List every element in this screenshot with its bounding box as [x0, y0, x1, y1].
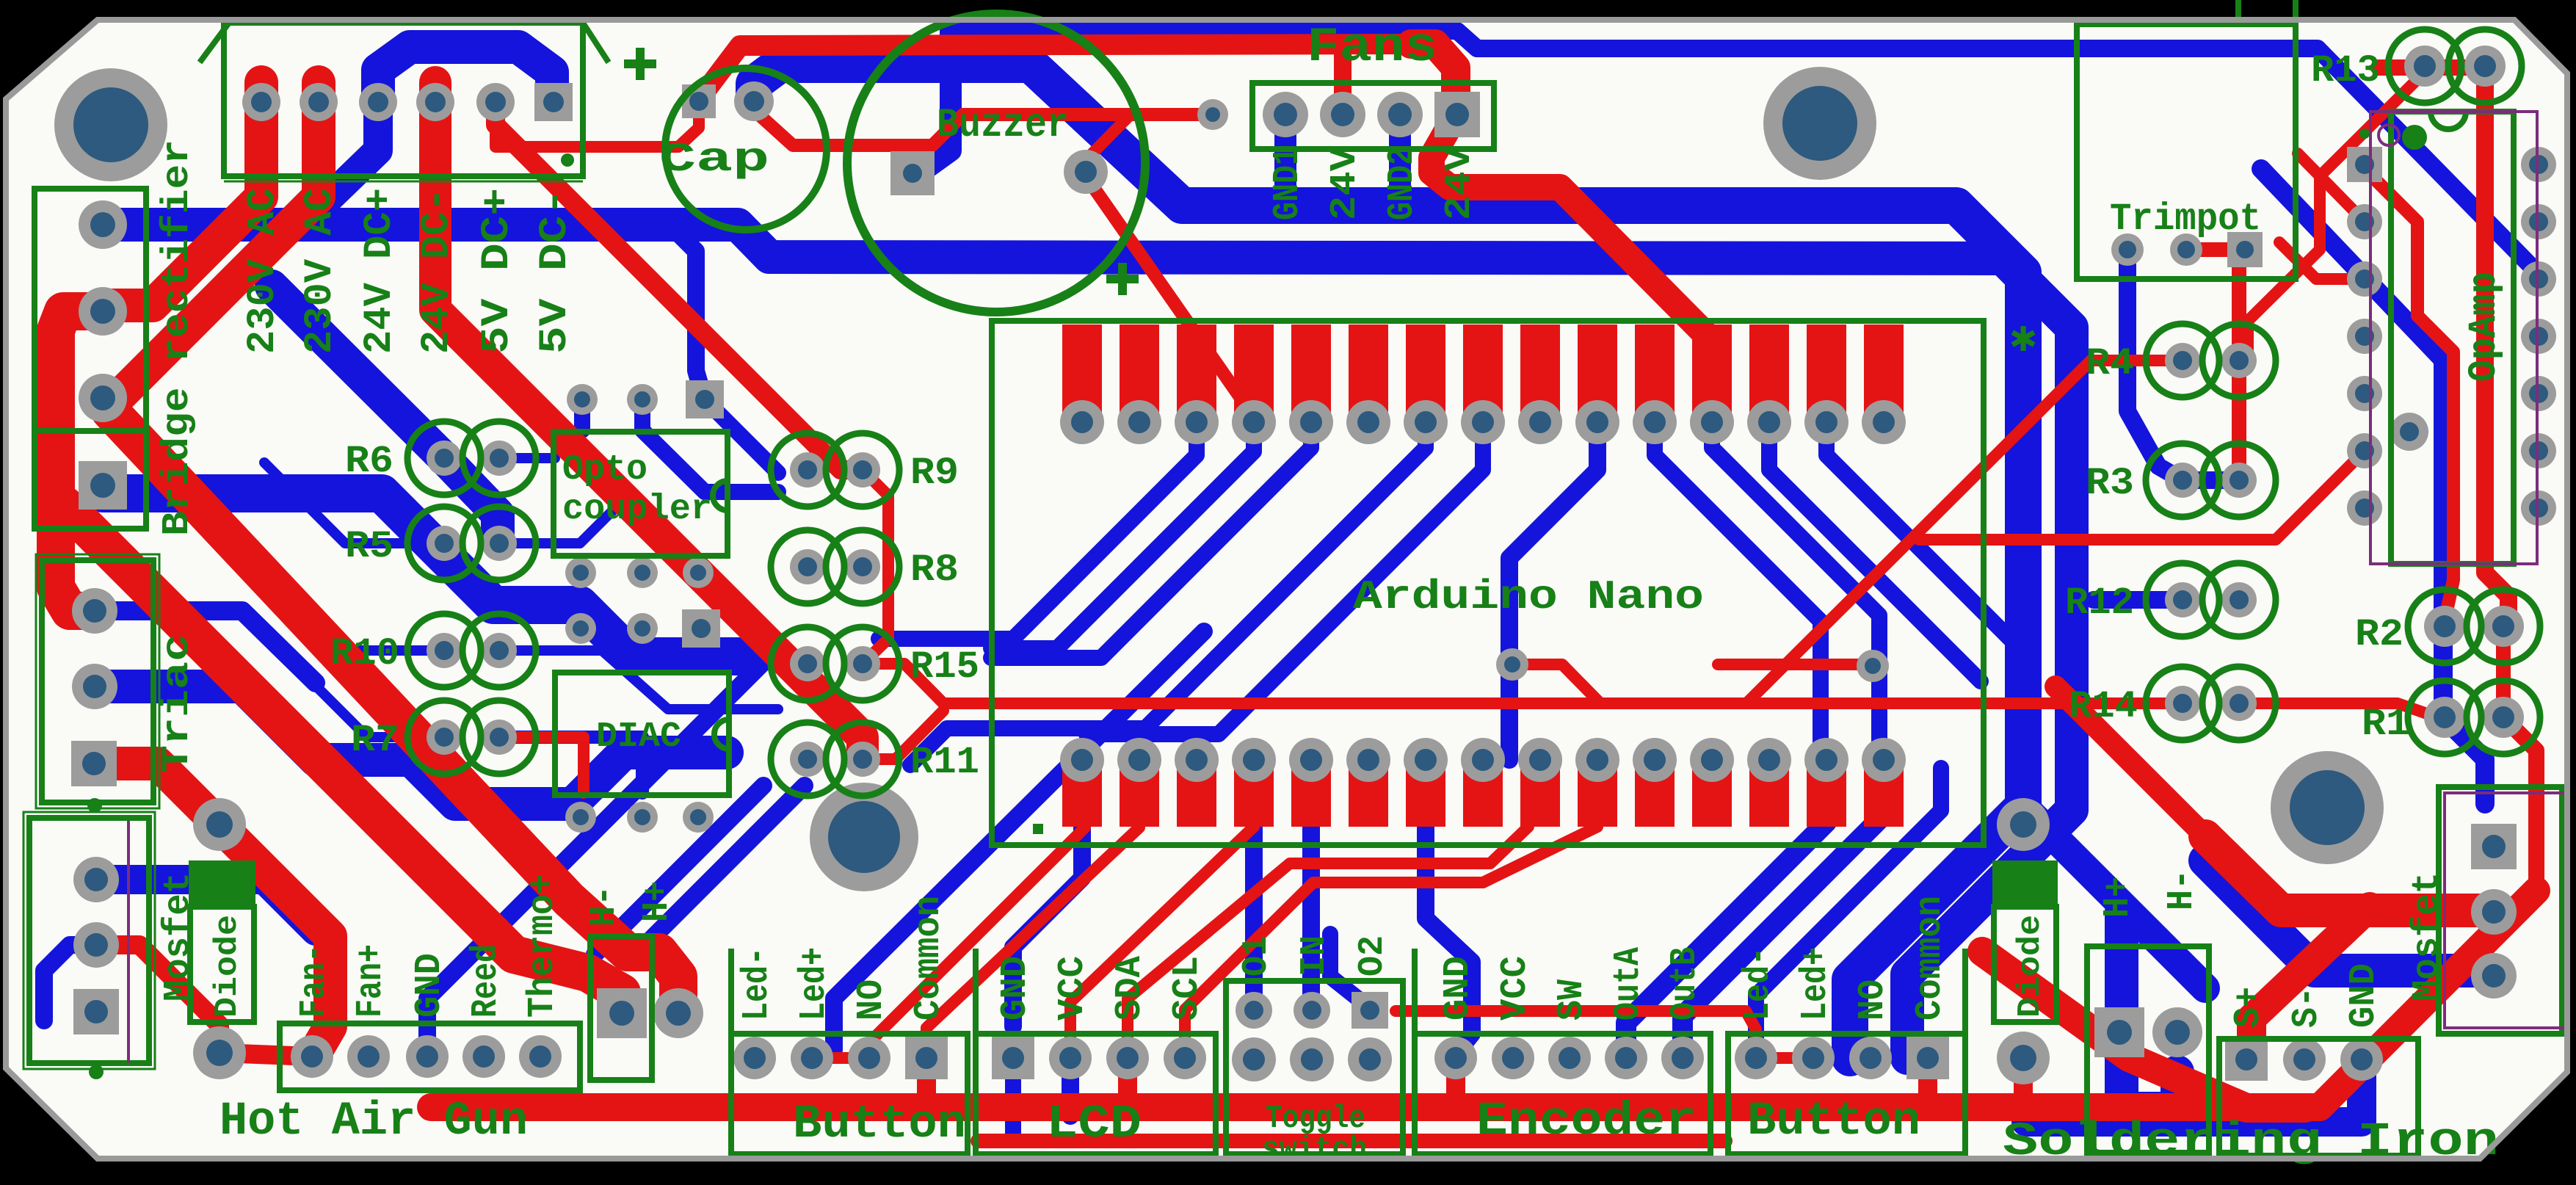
wire red top bus	[699, 44, 1411, 100]
svg-text:OpAmp: OpAmp	[2462, 272, 2507, 382]
pin J1-3 24V DC+	[359, 83, 397, 121]
resistor R7	[407, 700, 481, 774]
pin HAG-4	[462, 1035, 505, 1078]
wire red mosfet1 link	[96, 945, 219, 1053]
via A1	[567, 384, 598, 415]
trimpot RV1 outline	[2077, 24, 2296, 279]
resistor R12 pad 2	[2221, 582, 2257, 617]
wire red fans stub	[1334, 46, 1352, 117]
op-amp U3 outline	[2391, 112, 2514, 564]
wire red trimpot-R3	[2232, 255, 2246, 480]
wire red bus rise	[2305, 891, 2536, 1107]
svg-text:Led-: Led-	[1738, 947, 1779, 1021]
via nano2	[1857, 650, 1889, 682]
wire red enc bundle	[1070, 827, 1254, 1058]
via C2	[627, 613, 658, 644]
pin U1-7	[1404, 400, 1448, 444]
pin ENC-1	[1434, 1037, 1477, 1079]
pin U1-15	[1862, 400, 1906, 444]
fans connector outline	[1252, 83, 1494, 149]
wire blue nano bundle1	[879, 422, 1197, 639]
wire red O2 horizontal	[1396, 1011, 1756, 1051]
pin Fans-3	[1377, 92, 1423, 137]
svg-text:R2: R2	[2355, 613, 2403, 656]
pin U1-5	[1289, 400, 1333, 444]
pin U1-27	[1232, 738, 1276, 782]
svg-text:GND: GND	[2343, 963, 2385, 1028]
svg-text:VCC: VCC	[1052, 956, 1094, 1021]
pin U3-9	[2521, 433, 2556, 468]
svg-text:Opto: Opto	[562, 450, 647, 490]
wire blue band C	[103, 493, 741, 656]
svg-text:230V AC: 230V AC	[298, 188, 343, 354]
wire red S+ feed	[2246, 907, 2370, 1059]
wire red bus stub but2	[1918, 1058, 1937, 1103]
pin SW1-3t	[1352, 992, 1388, 1029]
resistor R6 pad 2	[482, 441, 517, 476]
wire red tr diag	[2056, 686, 2205, 836]
svg-text:Buzzer: Buzzer	[937, 101, 1069, 148]
resistor R12	[2146, 563, 2219, 637]
wire red R13 link	[2379, 59, 2485, 76]
pin BR1-3	[79, 374, 127, 422]
wire red bottom bus	[431, 1093, 2305, 1121]
resistor R8 pad 1	[790, 549, 825, 584]
via D1	[565, 802, 596, 833]
pin HAG-3	[406, 1035, 449, 1078]
resistor R10 pad 1	[427, 633, 462, 668]
connector button2 outline	[1728, 1034, 1965, 1154]
wire blue R12	[2094, 591, 2183, 609]
wire red 24VDCm diag	[435, 82, 863, 759]
wire blue S bus	[2026, 1068, 2362, 1122]
pin U1-19	[1690, 738, 1734, 782]
svg-text:R8: R8	[910, 548, 959, 592]
resistor R15	[771, 627, 844, 700]
svg-text:R11: R11	[910, 741, 979, 784]
pin U1-22	[1518, 738, 1562, 782]
pin RV1-1	[2111, 233, 2144, 266]
pin LCD-4	[1164, 1037, 1206, 1079]
diode D1 cathode	[193, 798, 246, 851]
svg-text:Arduino Nano: Arduino Nano	[1353, 573, 1704, 620]
pin U1-16	[1862, 738, 1906, 782]
pin Fans-2	[1320, 92, 1365, 137]
via D2	[627, 802, 658, 833]
svg-text:Led+: Led+	[794, 947, 835, 1021]
wire red 230V-1 stub	[109, 82, 261, 305]
pin BR1-1	[79, 200, 127, 249]
wire red mid2	[1718, 659, 1879, 670]
resistor R9 pad 2	[845, 452, 880, 488]
svg-text:Diode: Diode	[209, 915, 246, 1018]
wire red long R15-R4	[863, 360, 2183, 703]
pin J1-6 5V DC-	[534, 83, 573, 121]
resistor R9 pad 1	[790, 452, 825, 488]
wire blue band B	[103, 225, 2072, 1058]
wire blue band D	[95, 686, 727, 804]
resistor R6	[407, 421, 481, 495]
svg-text:R14: R14	[2069, 685, 2138, 728]
wire red but1 diag	[926, 827, 1139, 1058]
resistor R11 pad 1	[790, 742, 825, 777]
pin U1-30	[1060, 738, 1104, 782]
via C1	[565, 613, 596, 644]
wire red br diag	[1982, 952, 2305, 1108]
svg-text:Led-: Led-	[736, 947, 778, 1021]
wire blue br diag2	[2205, 860, 2494, 971]
resistor R11 pad 2	[845, 742, 880, 777]
wire red R13-R2	[2485, 73, 2508, 621]
pin U1-10	[1575, 400, 1619, 444]
wire red fans-nano	[1432, 115, 1710, 407]
wire red R14 left	[1718, 697, 2183, 709]
via D3	[683, 802, 714, 833]
pin U3-1	[2347, 147, 2382, 182]
pin J1-2 230V AC	[300, 83, 338, 121]
wire blue mosfet1	[96, 880, 316, 931]
wire red cap-buzzer trace	[754, 110, 1213, 145]
svg-text:Encoder: Encoder	[1476, 1095, 1697, 1148]
wire red buzzer diag	[1086, 176, 1252, 415]
pin SW1-1b	[1232, 1037, 1276, 1081]
wire blue pad3-pad4 pi	[378, 47, 552, 102]
wire blue R10b	[499, 651, 778, 709]
wire blue via3	[705, 399, 778, 473]
pin Q1-3	[71, 741, 117, 786]
pin BTN1-2	[791, 1037, 833, 1079]
pin H- hotair	[597, 988, 647, 1038]
svg-text:Diode: Diode	[2012, 915, 2049, 1018]
svg-text:H-: H-	[2161, 869, 2203, 910]
resistor R9	[771, 433, 844, 507]
bridge rectifier BR1 outline	[35, 189, 146, 529]
pin ENC-2	[1492, 1037, 1534, 1079]
pin HAG-2	[347, 1035, 390, 1078]
svg-text:O1: O1	[1237, 935, 1277, 976]
wire blue R7	[301, 671, 444, 737]
resistor R5	[407, 507, 481, 580]
wire red bus stub lcd	[1118, 1058, 1137, 1103]
wire red diode2 stub	[2014, 1072, 2033, 1106]
pin LCD-1	[992, 1037, 1034, 1079]
svg-text:✱: ✱	[2010, 315, 2036, 365]
buzzer BZ1 pad 2	[1064, 150, 1108, 194]
connector encoder outline	[1415, 1034, 1710, 1154]
wire blue R5b	[499, 492, 631, 543]
wire red opamp in1	[2298, 153, 2365, 222]
wire blue pad3 branch	[297, 106, 378, 225]
wire blue encoder	[1626, 768, 1826, 1050]
pin U1-25	[1346, 738, 1390, 782]
via A3	[686, 380, 724, 418]
connector soldering iron outline	[2219, 1039, 2418, 1156]
wire blue H vertical	[2122, 912, 2177, 1109]
svg-text:Reed: Reed	[465, 944, 507, 1018]
pin SW1-2b	[1290, 1037, 1334, 1081]
wire red bus stub enc	[1446, 1058, 1465, 1103]
pin U2-4	[565, 557, 596, 588]
connector LCD outline	[976, 1034, 1216, 1154]
pin H+ iron	[2094, 1007, 2144, 1057]
pin U2-3	[627, 557, 658, 588]
pin BTN2-1	[1735, 1037, 1777, 1079]
resistor R4 pad 1	[2165, 343, 2200, 378]
svg-text:R9: R9	[910, 452, 959, 495]
pin U1-24	[1404, 738, 1448, 782]
pin U1-2	[1117, 400, 1161, 444]
resistor R14 pad 1	[2165, 686, 2200, 721]
via A2	[627, 384, 658, 415]
resistor R3 pad 1	[2165, 463, 2200, 498]
svg-text:Trimpot: Trimpot	[2110, 197, 2261, 241]
svg-text:Cap: Cap	[659, 136, 769, 183]
svg-text:VCC: VCC	[1495, 956, 1536, 1021]
resistor R8	[771, 530, 844, 604]
wire red diode1 link	[219, 1053, 312, 1057]
pin U1-29	[1117, 738, 1161, 782]
mounting hole TL	[54, 68, 167, 181]
wire red bus2	[978, 1134, 1725, 1148]
svg-text:Thermo+: Thermo+	[522, 874, 564, 1018]
courtyard mosfet1	[127, 821, 130, 1063]
pin SW1-1t	[1236, 992, 1272, 1029]
pin U1-8	[1461, 400, 1505, 444]
pin U1-12	[1690, 400, 1734, 444]
wire red C shape	[56, 311, 103, 611]
svg-text:H+: H+	[2097, 877, 2139, 918]
pin U1-20	[1633, 738, 1677, 782]
pin SW1-2t	[1294, 992, 1330, 1029]
wire red via stub	[1512, 664, 1600, 703]
via C3	[682, 609, 720, 648]
pin SW1-3b	[1348, 1037, 1392, 1081]
wire blue lcd stubs	[1013, 768, 1082, 1026]
mosfet Q3 outline	[2439, 787, 2562, 1034]
wire blue via2	[642, 399, 778, 492]
pin U1-21	[1575, 738, 1619, 782]
wire red but1 link	[812, 1052, 869, 1064]
courtyard opamp	[2370, 112, 2537, 564]
pin U1-6	[1346, 400, 1390, 444]
pin U1-17	[1804, 738, 1848, 782]
capacitor C1 outline	[665, 68, 827, 230]
pin U3-7	[2347, 490, 2382, 526]
pin U3-3	[2347, 261, 2382, 297]
wire red mid1	[1919, 452, 2364, 540]
wire red R7-DIAC	[499, 737, 584, 793]
resistor R2	[2408, 590, 2481, 663]
wire red but2 link	[1756, 1052, 1813, 1064]
connector button1 outline	[731, 1034, 968, 1154]
pin U1-11	[1633, 400, 1677, 444]
resistor R12 pad 1	[2165, 582, 2200, 617]
svg-text:DIAC: DIAC	[596, 717, 681, 757]
wire red fat3	[94, 764, 330, 1054]
pin Q3-1	[2471, 824, 2517, 869]
wire red opamp in2	[2279, 242, 2365, 279]
svg-text:GND: GND	[1437, 956, 1479, 1021]
pin U3-12	[2521, 261, 2556, 297]
wire red opamp S	[2365, 169, 2453, 621]
pin Q2-2	[73, 922, 119, 968]
svg-text:Led+: Led+	[1795, 947, 1837, 1021]
svg-text:OutA: OutA	[1608, 947, 1650, 1021]
pin HAG-5	[519, 1035, 562, 1078]
svg-text:S-: S-	[2286, 987, 2328, 1028]
pin J1-5 5V DC+	[476, 83, 515, 121]
wire red R1 right	[2503, 717, 2536, 891]
resistor R2 pad 1	[2424, 606, 2465, 647]
svg-text:R12: R12	[2065, 581, 2134, 625]
resistor R1	[2408, 681, 2481, 754]
pin BTN2-2	[1792, 1037, 1835, 1079]
pin Q3-3	[2471, 953, 2517, 999]
pin U1-28	[1175, 738, 1219, 782]
pin U1-13	[1747, 400, 1791, 444]
wire blue br diag1	[2023, 806, 2205, 988]
svg-text:Triac: Triac	[156, 634, 199, 773]
H header iron outline	[2087, 946, 2209, 1153]
wire red bus stub but1	[917, 1058, 936, 1103]
pin J1-4 24V DC-	[416, 83, 454, 121]
svg-text:R15: R15	[910, 645, 979, 689]
resistor R11	[771, 722, 844, 796]
wire blue trimpot-R3	[2127, 255, 2239, 480]
svg-text:Fan+: Fan+	[350, 944, 392, 1018]
pin U1-4	[1232, 400, 1276, 444]
optocoupler U2 outline	[554, 432, 728, 556]
svg-text:IN: IN	[1295, 935, 1335, 976]
via opamp	[2390, 413, 2428, 451]
resistor R2 pad 2	[2483, 606, 2524, 647]
pin U3-13	[2521, 204, 2556, 239]
wire blue H pair 1	[595, 786, 763, 954]
wire blue via drop	[671, 226, 703, 396]
pin BTN1-3	[848, 1037, 890, 1079]
pin H+ hotair	[653, 988, 703, 1038]
wire red R9-R8	[863, 470, 888, 664]
arduino nano U1 pads	[1062, 325, 1904, 827]
pin Fans-4	[1434, 92, 1480, 137]
diac D3 outline	[555, 673, 729, 795]
resistor R7 pad 2	[482, 720, 517, 755]
pin U1-23	[1461, 738, 1505, 782]
svg-text:5V DC+: 5V DC+	[475, 188, 520, 354]
wire blue band A	[754, 65, 2023, 1058]
resistor R3 pad 2	[2221, 463, 2257, 498]
svg-text:24V: 24V	[1324, 147, 1366, 220]
mounting hole BL	[810, 783, 918, 891]
svg-text:Common: Common	[908, 896, 950, 1021]
resistor R5 pad 2	[482, 526, 517, 561]
pin ENC-5	[1661, 1037, 1704, 1079]
pin RV1-3	[2227, 232, 2263, 267]
capacitor C1 pad +	[734, 81, 774, 121]
courtyard mosfet2	[2445, 793, 2568, 1028]
pin U3-14	[2521, 147, 2556, 182]
resistor R15 pad 1	[790, 646, 825, 681]
svg-text:Bridge rectifier: Bridge rectifier	[156, 139, 199, 536]
svg-text:Button: Button	[1747, 1095, 1920, 1148]
wire blue triac1	[95, 611, 316, 683]
svg-text:Mosfet: Mosfet	[2406, 872, 2448, 1001]
svg-text:GND2: GND2	[1382, 147, 1423, 220]
wire blue top bus	[948, 31, 2539, 274]
diode D1 outline	[189, 860, 255, 907]
svg-text:NO: NO	[1852, 979, 1894, 1021]
svg-text:R13: R13	[2311, 49, 2380, 93]
wire blue R5	[264, 463, 444, 543]
wire blue hotair diag	[427, 648, 778, 1057]
wire red buzzer stub	[1088, 115, 1131, 172]
wire blue nano bundle2	[1655, 422, 1821, 760]
svg-text:5V DC-: 5V DC-	[533, 188, 578, 354]
resistor R13 pad 2	[2464, 46, 2506, 87]
capacitor C1 pad -	[682, 84, 716, 118]
resistor R14	[2146, 667, 2219, 740]
via nano	[1496, 648, 1528, 681]
resistor R5 pad 1	[427, 526, 462, 561]
resistor R3	[2146, 443, 2219, 517]
svg-text:Common: Common	[1909, 896, 1951, 1021]
pin U1-14	[1804, 400, 1848, 444]
wire blue fans gnd1	[1274, 115, 1296, 207]
svg-text:S+: S+	[2228, 987, 2270, 1028]
pin RV1-2	[2170, 233, 2202, 266]
svg-text:R1: R1	[2362, 703, 2410, 746]
resistor R8 pad 2	[845, 549, 880, 584]
pin U3-5	[2347, 376, 2382, 411]
svg-text:SCL: SCL	[1167, 956, 1208, 1021]
pin U3-10	[2521, 376, 2556, 411]
wire red trimpot link	[2186, 242, 2245, 257]
svg-text:GND1: GND1	[1267, 147, 1309, 220]
wire blue H pair 2	[636, 786, 805, 954]
pin BTN2-4	[1906, 1037, 1949, 1079]
resistor R10	[407, 614, 481, 687]
arduino nano U1 outline	[992, 321, 1984, 845]
via B3	[683, 557, 714, 588]
svg-text:O2: O2	[1353, 935, 1393, 976]
pin BTN2-3	[1849, 1037, 1892, 1079]
svg-text:24V DC-: 24V DC-	[415, 188, 460, 354]
wire red 230V-2 stub	[103, 82, 319, 398]
pin U3-2	[2347, 204, 2382, 239]
wire blue R6	[272, 286, 498, 542]
pin LCD-2	[1049, 1037, 1092, 1079]
wire blue fans gnd2	[1389, 115, 1411, 207]
pin ENC-3	[1548, 1037, 1591, 1079]
svg-text:24V DC+: 24V DC+	[358, 188, 402, 354]
resistor R6 pad 1	[427, 441, 462, 476]
pin Q2-1	[73, 857, 119, 902]
pin U3-8	[2521, 490, 2556, 526]
mosfet Q2 outline	[29, 818, 149, 1063]
resistor R15 pad 2	[845, 646, 880, 681]
wire blue buzzer	[919, 32, 951, 173]
diode D2 anode	[1997, 1032, 2050, 1084]
pin U1-3	[1175, 400, 1219, 444]
svg-text:GND: GND	[409, 953, 451, 1018]
pin U3-11	[2521, 319, 2556, 354]
buzzer BZ1 outline	[847, 14, 1145, 312]
connector J1 outline	[224, 23, 583, 176]
H header hotair outline	[590, 936, 652, 1080]
wire red cap trace	[496, 104, 699, 147]
wire red R2-R1	[2496, 632, 2511, 711]
wire blue toggle stub	[1245, 826, 1263, 1010]
